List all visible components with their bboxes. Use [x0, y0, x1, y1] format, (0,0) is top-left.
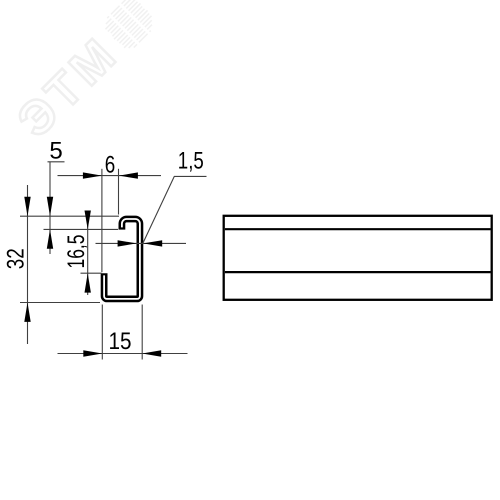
dimension 6 arrow left-pointing: [119, 172, 138, 178]
side view rectangle: [224, 216, 492, 300]
side view upper fold line: [225, 228, 491, 230]
dimension 16,5 arrow down: [85, 211, 91, 230]
dimension 16,5 line: [87, 211, 89, 295]
dimension 5 arrow down: [47, 197, 53, 217]
svg-text:16,5: 16,5: [63, 235, 90, 269]
dimension 15 right extension: [141, 305, 143, 360]
leader 1,5 horizontal arrow line: [96, 242, 187, 244]
leader 1,5 diagonal: [143, 176, 174, 243]
dimension 6 right extension: [118, 169, 120, 215]
svg-text:5: 5: [49, 138, 62, 165]
svg-text:6: 6: [105, 151, 116, 178]
svg-text:32: 32: [3, 248, 30, 269]
extension line top (y=216.2): [20, 215, 119, 217]
dimension 15 arrow left-pointing: [142, 350, 161, 356]
extension line bottom (y=302.5): [20, 302, 100, 304]
dimension 6 line: [58, 175, 162, 177]
dimension 32 line: [27, 185, 29, 344]
dimension 6 left extension: [101, 169, 103, 272]
leader 1,5 text bar: [174, 175, 207, 177]
dimension 1,5 arrow right-pointing: [118, 240, 137, 246]
svg-text:ЭТМ: ЭТМ: [8, 27, 129, 148]
dimension 15 arrow right-pointing: [83, 350, 102, 356]
dimension 16,5 arrow up: [85, 273, 91, 292]
extension line bottom hook end (y=273.2): [81, 272, 102, 274]
profile white core (makes double-line contour): [104, 219, 140, 299]
svg-text:1,5: 1,5: [178, 148, 204, 175]
svg-text:15: 15: [109, 328, 132, 355]
dimension 5 text bar: [48, 161, 65, 163]
profile body outer+inner contour (black centerline stroke): [104, 219, 140, 299]
dimension 1,5 arrow left-pointing: [143, 240, 162, 246]
extension line top hook end (y=229.4): [44, 228, 119, 230]
dimension 15 line: [58, 353, 188, 355]
dimension 32 arrow down: [24, 197, 30, 217]
dimension 5 arrow up: [47, 229, 53, 248]
watermark ЭТМ logo emblem (striped square): [99, 0, 161, 56]
dimension 15 left extension: [101, 305, 103, 360]
side view lower fold line: [225, 271, 491, 273]
dimension 5 line: [49, 162, 51, 254]
dimension 6 arrow right-pointing: [83, 172, 102, 178]
dimension 32 arrow up: [24, 303, 30, 322]
